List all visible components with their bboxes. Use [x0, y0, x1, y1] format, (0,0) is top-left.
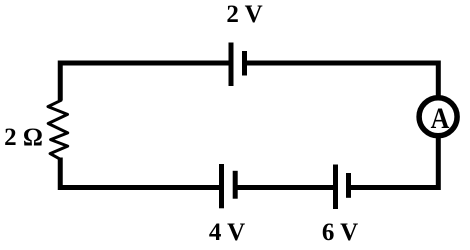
battery B2 4V long plate [219, 164, 224, 208]
svg-text:A: A [431, 102, 450, 135]
wire: left side below resistor and bottom-left segment [60, 158, 220, 188]
svg-text:6 V: 6 V [322, 219, 358, 246]
battery B1 2V long plate [229, 43, 234, 87]
battery B2 4V short plate [233, 171, 238, 199]
ammeter A1 circle [419, 98, 457, 136]
svg-text:2 V: 2 V [226, 1, 262, 28]
svg-text:2 Ω: 2 Ω [4, 124, 43, 151]
battery B1 2V short plate [242, 51, 247, 76]
resistor R1 zigzag [48, 100, 68, 159]
wire: bottom middle segment between batteries [237, 185, 334, 190]
wire: top-right segment and right side down to ammeter [247, 63, 439, 97]
battery B3 6V short plate [346, 173, 351, 198]
wire: top-left segment and left side down to resistor [60, 63, 229, 100]
svg-text:4 V: 4 V [209, 219, 245, 246]
wire: right side below ammeter and bottom-right segment [350, 137, 438, 188]
ammeter A1 letter [431, 102, 450, 135]
battery B3 6V long plate [333, 165, 338, 210]
